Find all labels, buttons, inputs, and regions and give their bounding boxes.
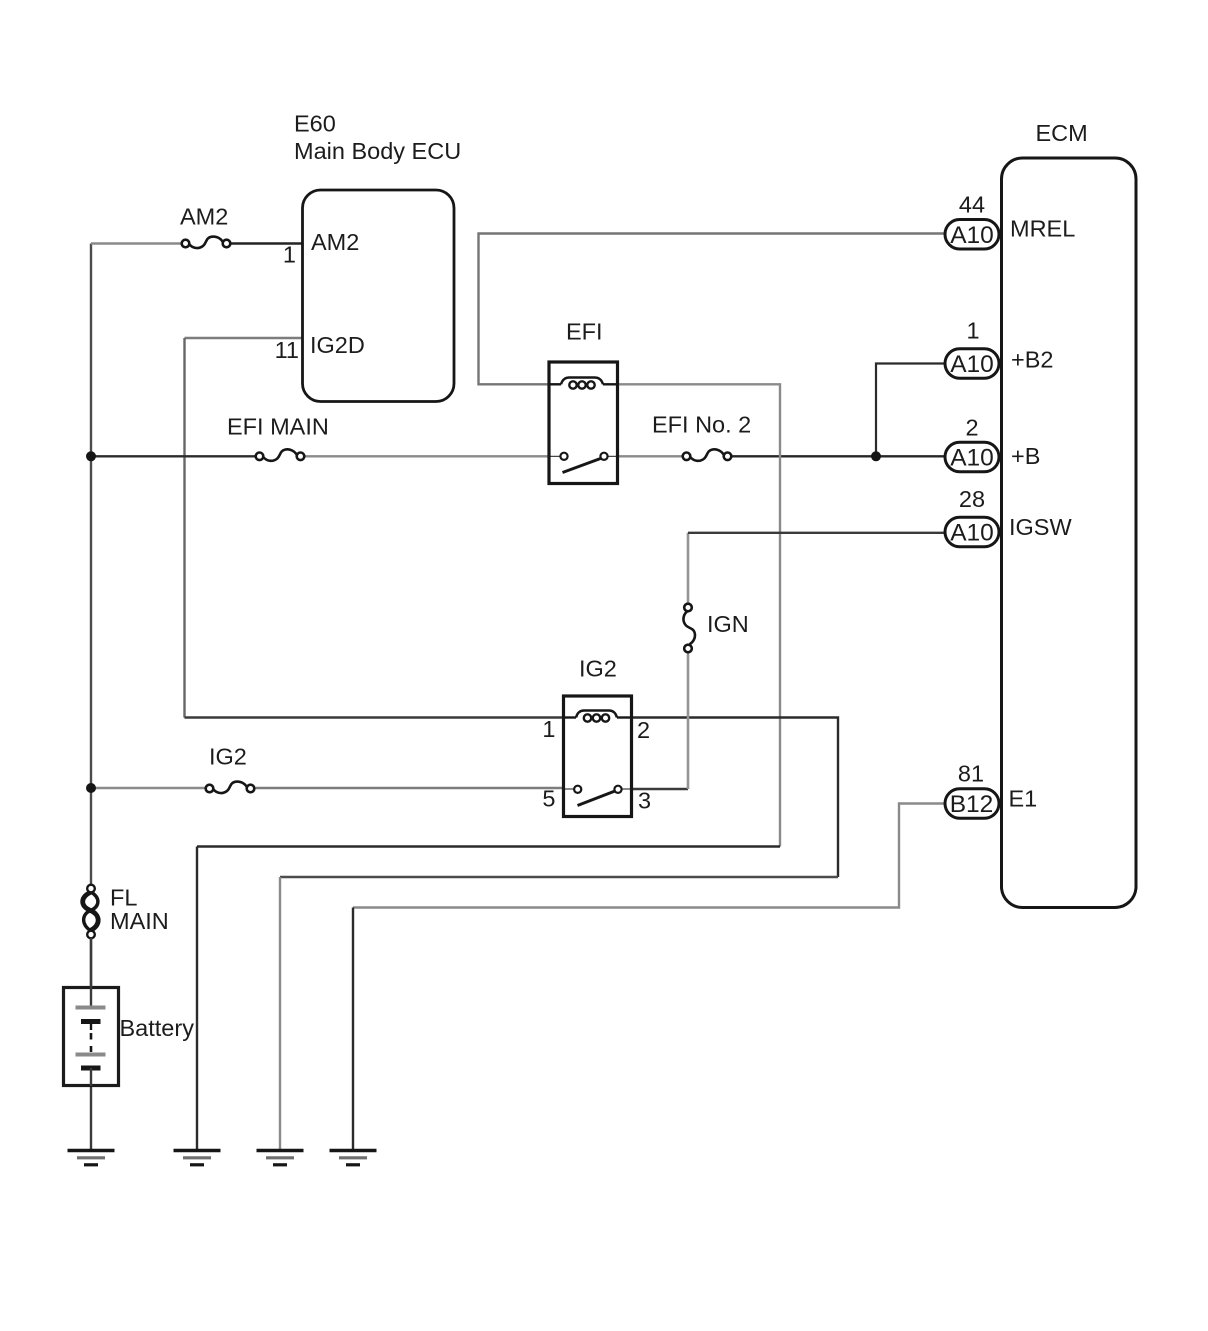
svg-text:IG2: IG2 <box>579 656 617 682</box>
wire EFI No.2 fuse to +B terminal <box>731 455 946 457</box>
svg-text:A10: A10 <box>950 351 994 378</box>
EFI relay switch <box>549 453 618 473</box>
fuse IG2 <box>206 782 255 794</box>
svg-text:EFI MAIN: EFI MAIN <box>227 414 329 440</box>
svg-text:ECM: ECM <box>1036 120 1088 146</box>
svg-text:1: 1 <box>283 242 296 268</box>
fuse IGN (vertical) <box>683 604 695 653</box>
wire IGN fuse lower vertical <box>687 651 690 790</box>
ground G2 (EFI relay coil) <box>174 1151 221 1165</box>
ECM box <box>1002 158 1137 908</box>
svg-text:+B2: +B2 <box>1011 347 1053 373</box>
svg-text:MREL: MREL <box>1010 216 1075 242</box>
fuse AM2 <box>182 237 231 249</box>
wire battery rail vertical (battery + to AM2/EFI MAIN/IG2 fuses) <box>90 244 92 886</box>
svg-text:E1: E1 <box>1009 786 1038 812</box>
fuse EFI No. 2 <box>683 449 732 461</box>
svg-text:A10: A10 <box>950 520 994 547</box>
Main Body ECU box E60 <box>303 190 455 402</box>
junction +B / +B2 branch <box>871 451 881 461</box>
svg-text:IG2: IG2 <box>209 744 247 770</box>
wire IG2D pin 11 horizontal <box>185 337 304 339</box>
ground G1 (battery) <box>68 1151 115 1165</box>
wire ground drop G3 <box>279 877 281 1150</box>
svg-text:44: 44 <box>959 192 985 218</box>
connector B12 pin 81 (E1) <box>945 789 999 819</box>
svg-text:Main Body ECU: Main Body ECU <box>294 138 461 164</box>
svg-text:A10: A10 <box>950 222 994 249</box>
connector A10 pin 1 (+B2) <box>945 349 999 379</box>
ground G3 (IG2 relay coil) <box>257 1151 304 1165</box>
svg-text:EFI No. 2: EFI No. 2 <box>652 412 751 438</box>
svg-text:IG2D: IG2D <box>310 332 365 358</box>
svg-text:E60: E60 <box>294 111 336 137</box>
svg-text:81: 81 <box>958 761 984 787</box>
svg-text:28: 28 <box>959 486 985 512</box>
wire IG2 relay coil feed (pin 1) <box>185 716 565 718</box>
svg-text:3: 3 <box>638 788 651 814</box>
IG2 relay box <box>564 696 632 817</box>
wire AM2 fuse feed horizontal <box>91 242 182 244</box>
svg-text:AM2: AM2 <box>180 204 228 230</box>
svg-text:1: 1 <box>542 716 555 742</box>
wire EFI MAIN left segment <box>91 455 256 457</box>
connector A10 pin 2 (+B) <box>945 442 999 472</box>
svg-text:IGSW: IGSW <box>1009 514 1072 540</box>
EFI relay coil <box>549 378 618 389</box>
svg-text:IGN: IGN <box>707 611 749 637</box>
svg-text:2: 2 <box>637 717 650 743</box>
fuse EFI MAIN <box>256 449 305 461</box>
svg-text:AM2: AM2 <box>311 229 359 255</box>
wire IG2 coil ground horizontal <box>280 876 838 878</box>
svg-text:B12: B12 <box>950 791 994 818</box>
wire IG2 relay coil pin 2 out <box>632 718 839 878</box>
wire EFI relay coil to ground run <box>618 384 781 846</box>
svg-text:MAIN: MAIN <box>110 908 169 934</box>
wire EFI MAIN fuse to EFI relay <box>305 455 550 457</box>
battery <box>64 938 119 1086</box>
svg-text:1: 1 <box>966 318 979 344</box>
svg-text:A10: A10 <box>950 445 994 472</box>
svg-text:+B: +B <box>1011 443 1040 469</box>
wire +B2 branch <box>876 364 945 457</box>
EFI relay box <box>549 362 618 484</box>
wire AM2 fuse to Main Body ECU pin 1 <box>231 242 304 244</box>
wire EFI relay coil ground horizontal <box>197 845 780 847</box>
IG2 relay coil <box>564 711 632 722</box>
IG2 relay switch <box>564 786 632 806</box>
svg-text:5: 5 <box>542 786 555 812</box>
wire EFI relay to EFI No.2 fuse <box>618 455 683 457</box>
wire E1 ground run <box>353 804 945 908</box>
fusible link FL MAIN <box>83 885 99 939</box>
wire IG2 relay pin 3 out <box>632 788 689 790</box>
svg-text:11: 11 <box>275 337 299 363</box>
wire IG2 fuse to IG2 relay pin 5 <box>256 787 565 789</box>
wire MREL to EFI relay coil <box>479 234 946 385</box>
connector A10 pin 44 (MREL) <box>945 220 999 250</box>
svg-text:2: 2 <box>965 415 978 441</box>
wire IG2D vertical drop <box>183 338 185 718</box>
wire ground drop G2 <box>196 847 198 1151</box>
wire IG2 fuse feed <box>91 787 206 789</box>
svg-text:Battery: Battery <box>120 1015 195 1041</box>
ground G4 (ECM E1) <box>330 1151 377 1165</box>
junction battery rail / EFI MAIN <box>86 451 96 461</box>
connector A10 pin 28 (IGSW) <box>945 517 999 547</box>
junction battery rail / IG2 fuse <box>86 783 96 793</box>
wire IGSW horizontal <box>688 532 945 534</box>
svg-text:FL: FL <box>110 885 137 911</box>
wire battery to ground G1 <box>90 938 92 1150</box>
wire ground drop G4 <box>352 908 354 1151</box>
wire IGN fuse upper vertical <box>687 533 690 604</box>
svg-text:EFI: EFI <box>566 319 603 345</box>
